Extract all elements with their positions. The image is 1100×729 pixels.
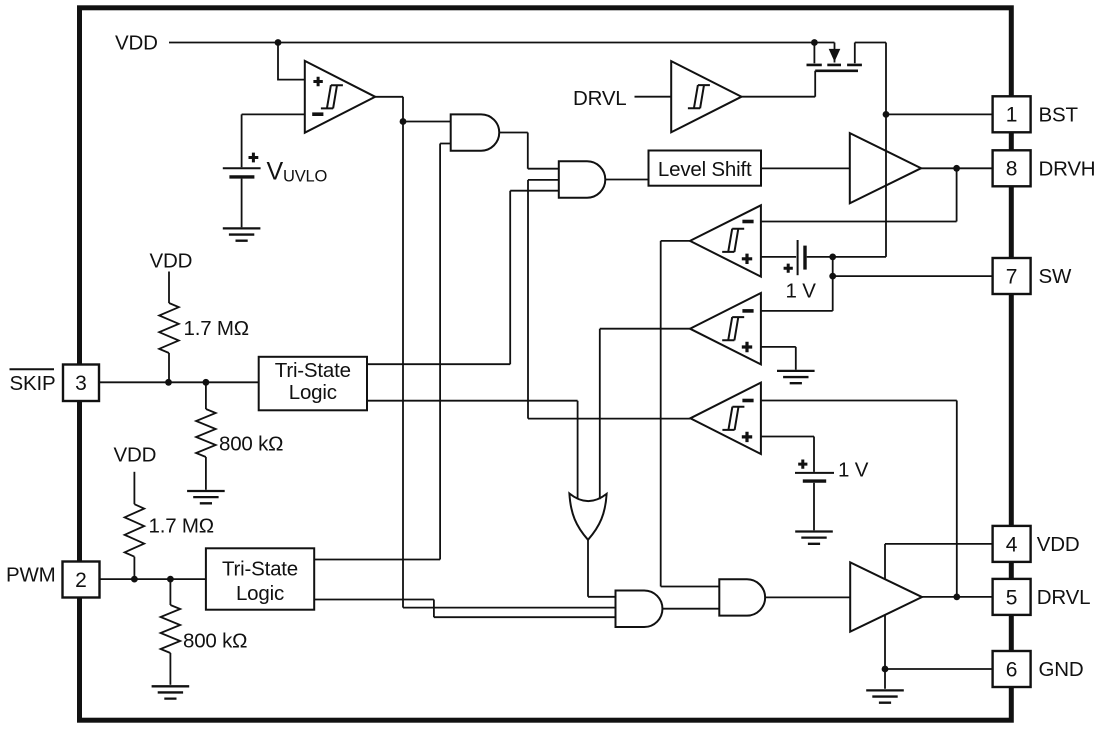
junction SKIP node / R2 — [203, 379, 210, 386]
junction DRVL node — [953, 594, 960, 601]
svg-text:VDD: VDD — [1037, 533, 1080, 556]
comparator U4 (hysteresis, left-facing) — [690, 205, 761, 276]
wire VDD rail top — [169, 42, 835, 44]
junction BST rail / pin 1 — [883, 111, 890, 118]
wire V_UVLO to U1 - input — [242, 114, 305, 167]
pin 6 GND — [993, 651, 1084, 687]
comparator U5 (hysteresis, left-facing) — [690, 293, 761, 364]
svg-text:1: 1 — [1006, 104, 1018, 127]
svg-text:VDD: VDD — [150, 250, 193, 273]
junction DRVH node — [953, 165, 960, 172]
AND gate A1 — [451, 114, 500, 150]
driver U7 (DRVL) — [850, 562, 922, 631]
wire Q1 drain terminal to BST — [855, 43, 886, 64]
svg-text:VUVLO: VUVLO — [267, 158, 328, 186]
ground (R2) — [187, 491, 225, 503]
pin 8 DRVH — [993, 150, 1096, 186]
svg-text:PWM: PWM — [6, 564, 56, 587]
wire tri-state PWM lower output to AND A3 — [314, 600, 615, 618]
wire A2 output to Level Shift — [605, 179, 648, 181]
ground (U5 +) — [777, 371, 815, 383]
wire BST to pin 1 — [886, 113, 993, 115]
block Tri-State Logic (PWM) — [206, 548, 314, 609]
overline for SKIP — [10, 368, 55, 370]
wire VDD to R3 — [133, 472, 135, 504]
wire R2 to ground — [205, 457, 207, 490]
wire U6 + input to battery — [761, 437, 814, 472]
junction VDD rail to UVLO comparator — [275, 39, 282, 46]
pin 1 BST — [993, 96, 1079, 132]
svg-text:DRVL: DRVL — [1037, 586, 1091, 609]
buffer U2 (DRVL input, hysteresis) — [671, 61, 741, 132]
wire U1 output — [375, 97, 615, 608]
wire U5 output — [600, 329, 690, 500]
wire tri-state PWM upper output to AND A1 — [314, 144, 451, 560]
wire A3 output to A4 — [662, 608, 719, 610]
junction PWM node / R4 — [167, 576, 174, 583]
svg-text:2: 2 — [75, 569, 87, 592]
svg-text:Logic: Logic — [289, 381, 337, 404]
wire battery to ground (U6) — [813, 483, 815, 531]
wire Q1 source terminal — [813, 43, 815, 64]
junction U1 output to AND A1 — [400, 118, 407, 125]
wire Level Shift to U3 — [761, 167, 850, 169]
svg-text:SW: SW — [1039, 265, 1072, 288]
wire A1 output to A2 — [499, 133, 559, 169]
wire DRVL to buffer U2 — [635, 96, 672, 98]
wire U5 + input to ground — [761, 347, 796, 370]
wire U6 output to A2 middle input — [528, 180, 690, 419]
transistor Q1 contact bars — [807, 64, 862, 67]
svg-text:Tri-State: Tri-State — [222, 558, 298, 581]
wire battery to BST rail — [807, 256, 886, 258]
wire SKIP node to R2 — [205, 382, 207, 409]
wire PWM node to R4 — [169, 579, 171, 605]
svg-text:Tri-State: Tri-State — [275, 359, 351, 382]
wire U2 output to Q1 gate — [742, 71, 816, 97]
svg-text:800 kΩ: 800 kΩ — [183, 630, 247, 653]
Q1 body diode arrow — [829, 49, 841, 62]
svg-text:1 V: 1 V — [786, 280, 817, 303]
svg-text:3: 3 — [75, 372, 87, 395]
svg-text:8: 8 — [1006, 158, 1018, 181]
svg-text:BST: BST — [1039, 104, 1079, 127]
AND gate A3 (3-input) — [616, 591, 663, 628]
svg-text:GND: GND — [1039, 658, 1084, 681]
driver U3 (DRVH) — [850, 133, 921, 203]
AND gate A2 (3-input) — [559, 161, 606, 197]
comparator U1 (UVLO, hysteresis) — [305, 61, 375, 133]
wire VDD to R1 — [168, 272, 170, 304]
wire V_UVLO to ground — [241, 179, 243, 228]
junction SKIP node / R1 — [165, 379, 172, 386]
wire U3 output to pin 8 — [921, 167, 993, 169]
svg-text:VDD: VDD — [114, 444, 157, 467]
wire VDD to U7 supply and pin 4 — [885, 544, 993, 580]
wire R3 to PWM node — [133, 557, 135, 579]
svg-text:1.7 MΩ: 1.7 MΩ — [184, 317, 249, 340]
resistor R3 1.7 Mohm (PWM pullup) — [125, 504, 145, 557]
junction PWM node / R3 — [131, 576, 138, 583]
block Level Shift — [649, 151, 762, 186]
wire tri-state SKIP lower output to OR O1 — [367, 401, 578, 500]
svg-text:1.7 MΩ: 1.7 MΩ — [149, 515, 214, 538]
battery 1 V (BST-SW) — [797, 240, 799, 275]
svg-text:SKIP: SKIP — [10, 372, 56, 395]
battery V_UVLO — [223, 167, 261, 169]
resistor R4 800 kohm (PWM pulldown) — [161, 605, 181, 653]
ground (V_UVLO) — [223, 228, 261, 240]
AND gate A4 — [719, 579, 765, 615]
svg-text:Level Shift: Level Shift — [658, 158, 752, 181]
wire U6 - input from DRVL node — [761, 401, 957, 597]
wire tri-state SKIP upper output to AND A2 — [367, 191, 559, 365]
wire VDD to U1 + input — [278, 43, 305, 80]
wire O1 output to A3 — [588, 540, 616, 597]
wire R1 to SKIP node — [168, 353, 170, 382]
battery 1 V (U6 +) — [795, 472, 834, 474]
svg-text:Logic: Logic — [236, 582, 284, 605]
wire Q1 body diode stem — [834, 43, 836, 63]
wire U4 output — [661, 241, 720, 587]
svg-text:VDD: VDD — [115, 32, 158, 55]
ground (U7 / GND) — [866, 690, 904, 702]
wire A4 output to U7 — [765, 596, 850, 598]
pin 4 VDD — [993, 526, 1080, 562]
wire U7 output to pin 5 — [922, 596, 993, 598]
wire GND node to ground — [884, 669, 886, 689]
svg-text:5: 5 — [1006, 586, 1018, 609]
pin 7 SW — [993, 258, 1072, 294]
pin 5 DRVL — [993, 579, 1091, 615]
resistor R2 800 kohm (SKIP pulldown) — [196, 409, 216, 457]
wire SW node vertical — [832, 257, 834, 311]
ground (R4) — [152, 686, 190, 698]
block Tri-State Logic (SKIP) — [259, 357, 367, 411]
svg-text:800 kΩ: 800 kΩ — [219, 433, 283, 456]
pin 2 box (PWM) — [63, 562, 100, 598]
wire U4 + input to battery — [761, 256, 796, 258]
comparator U6 (hysteresis, left-facing) — [690, 383, 761, 454]
wire pin 3 to tri-state logic — [99, 381, 259, 383]
svg-text:7: 7 — [1006, 265, 1018, 288]
wire SW node to pin 7 — [833, 275, 993, 277]
svg-text:DRVH: DRVH — [1039, 158, 1096, 181]
transistor Q1 gate bar — [815, 70, 858, 73]
pin 3 box (SKIP) — [63, 365, 99, 402]
OR gate O1 (down-facing) — [569, 494, 606, 540]
wire GND node to pin 6 — [885, 668, 993, 670]
wire U7 return to GND node — [884, 615, 886, 670]
wire BST vertical rail — [885, 43, 887, 257]
svg-text:6: 6 — [1006, 658, 1018, 681]
ground (1 V battery) — [795, 532, 833, 544]
junction SW node A — [829, 254, 836, 261]
wire R4 to ground — [169, 653, 171, 685]
wire pin 2 to tri-state logic — [100, 578, 206, 580]
svg-text:DRVL: DRVL — [573, 87, 627, 110]
svg-text:1 V: 1 V — [838, 459, 869, 482]
wire U1 output to AND A1 input — [403, 121, 451, 123]
wire DRVH feedback to U4 - input — [761, 168, 957, 221]
wire SW node to U5 - input — [761, 310, 833, 312]
junction SW node B — [829, 273, 836, 280]
junction VDD rail to Q1 source — [811, 39, 818, 46]
svg-text:4: 4 — [1006, 533, 1018, 556]
resistor R1 1.7 Mohm (SKIP pullup) — [159, 303, 179, 353]
junction GND node — [882, 666, 889, 673]
